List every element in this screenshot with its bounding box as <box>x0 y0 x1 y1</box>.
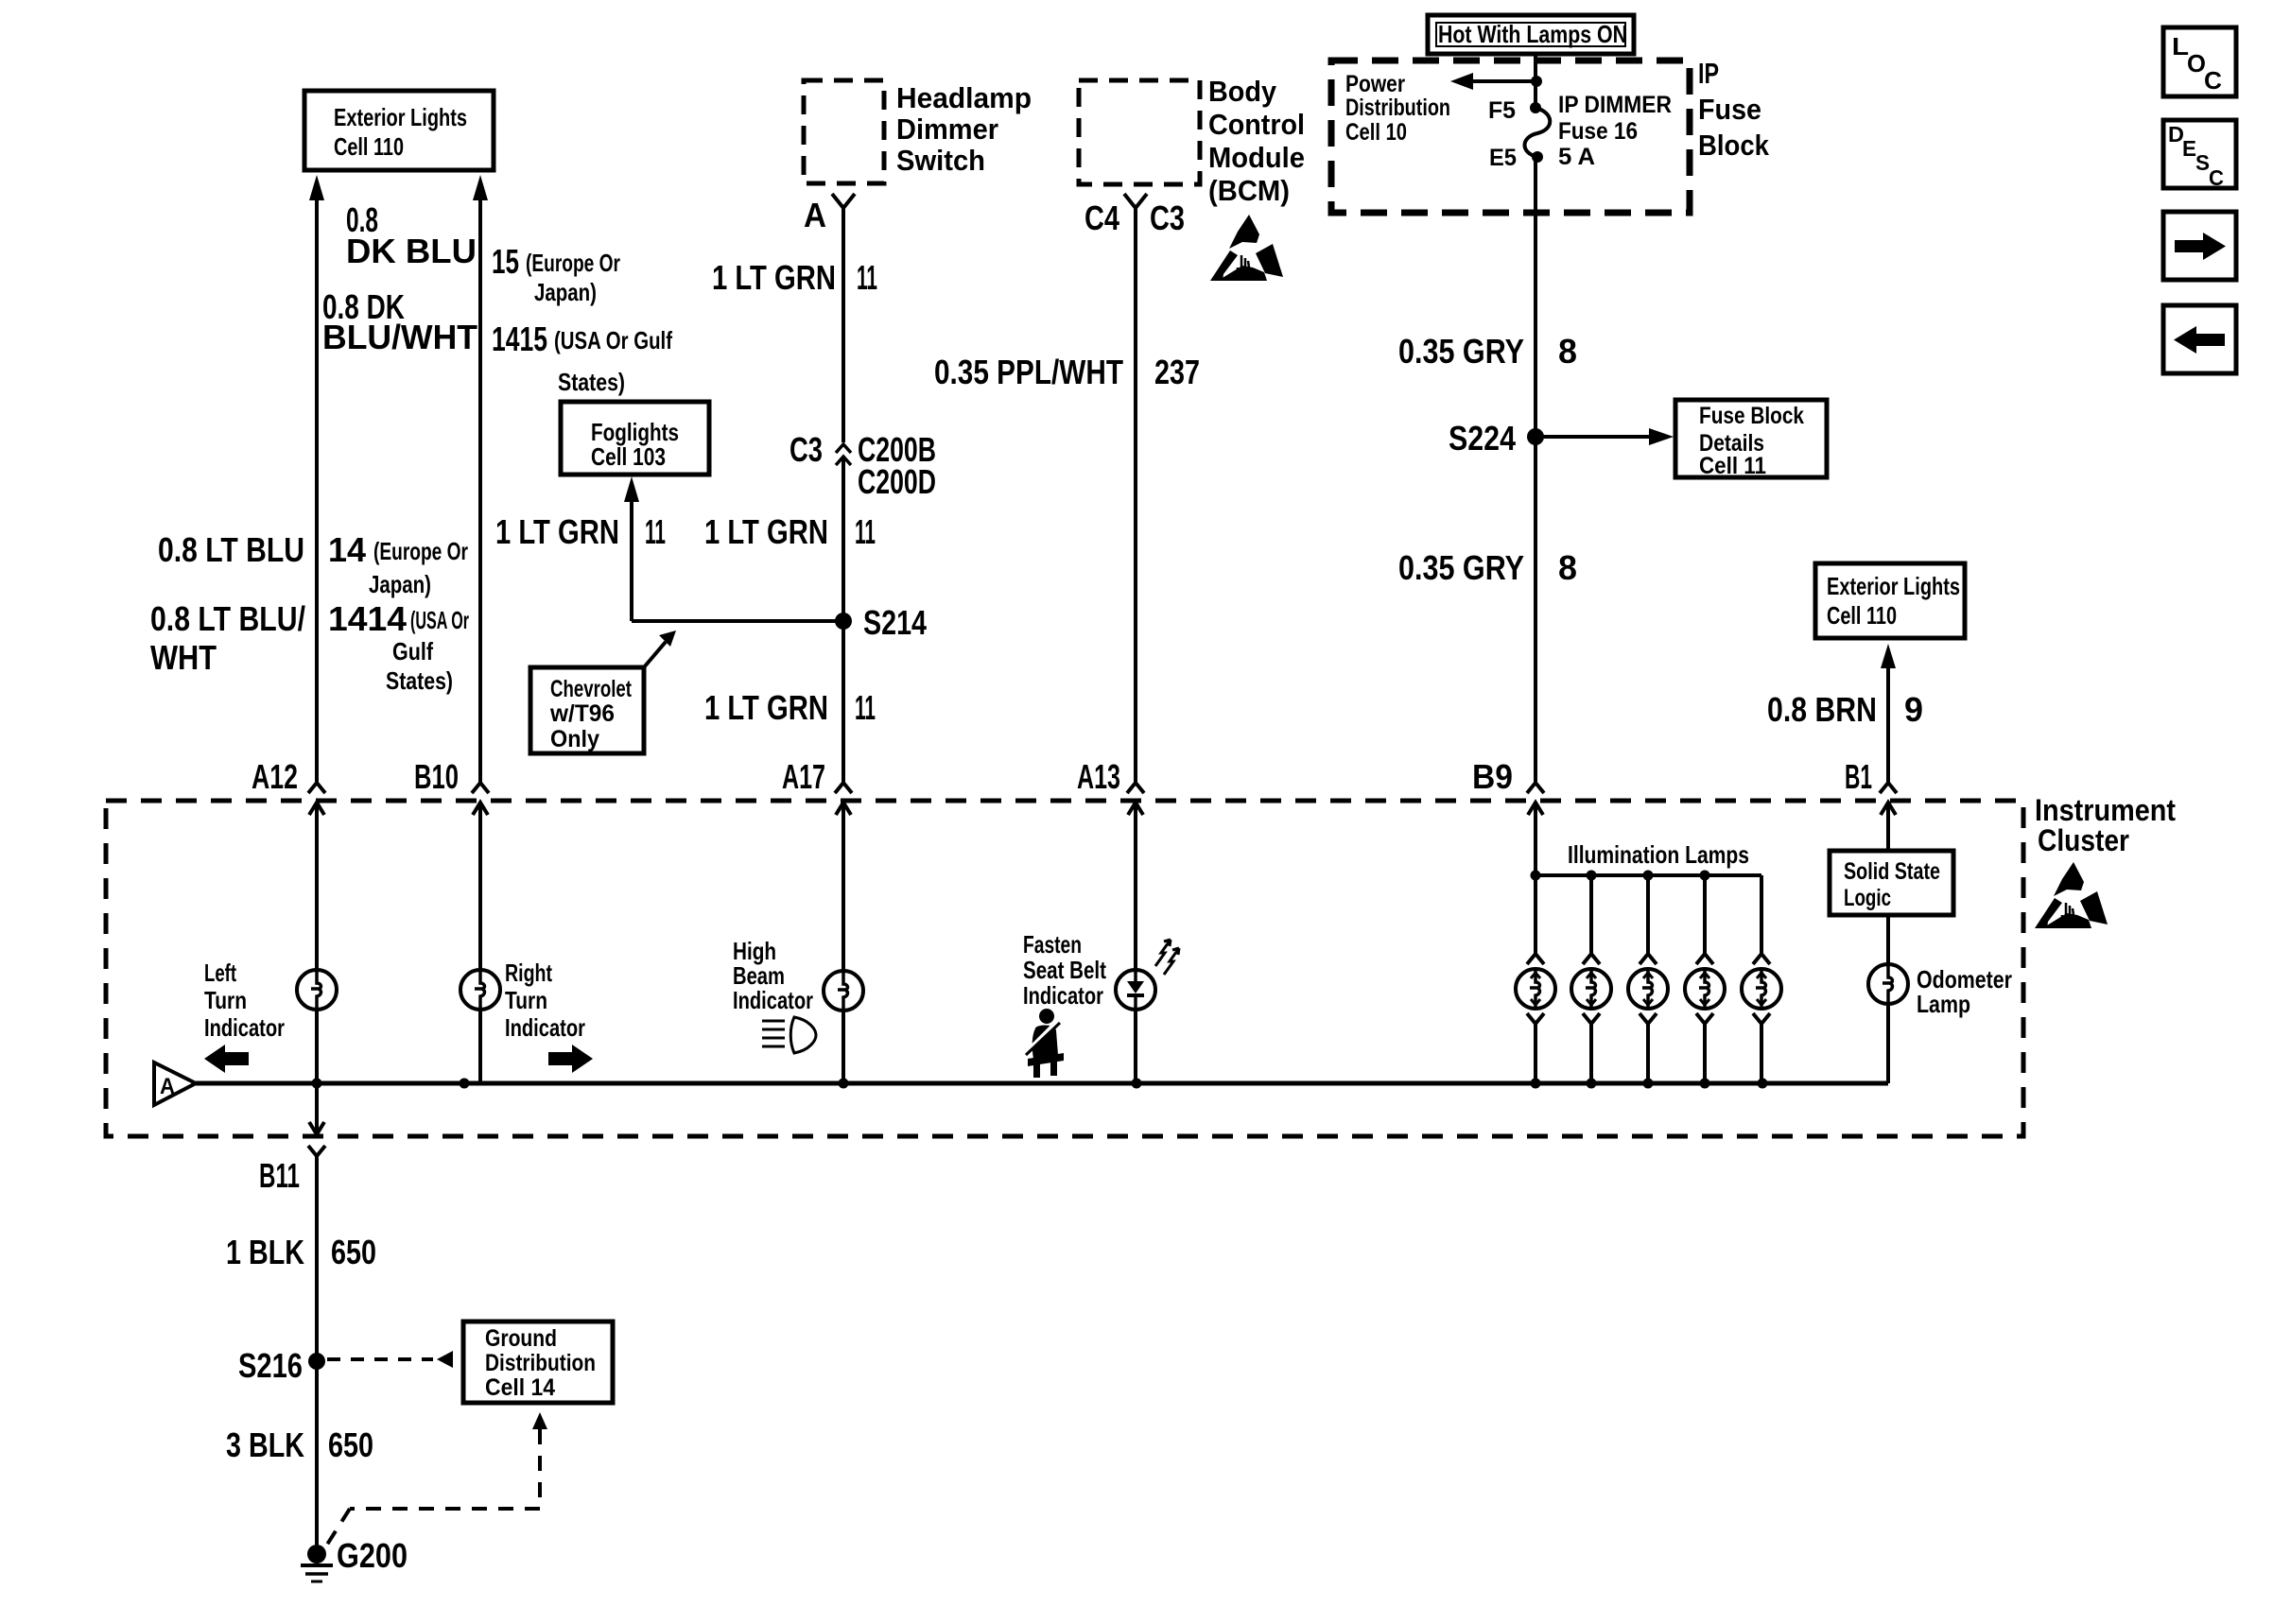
svg-text:Module: Module <box>1208 141 1305 174</box>
wire A13 from BCM - connector fork <box>1124 194 1147 782</box>
svg-text:0.8 LT BLU: 0.8 LT BLU <box>158 530 304 569</box>
box: Exterior Lights Cell 110 (left) <box>304 91 494 170</box>
svg-text:Cell 11: Cell 11 <box>1699 453 1766 479</box>
svg-text:11: 11 <box>855 512 876 551</box>
svg-text:11: 11 <box>855 688 876 727</box>
svg-text:C200D: C200D <box>858 462 936 501</box>
svg-text:B10: B10 <box>414 757 459 796</box>
wire S216 to G200 <box>315 1361 319 1554</box>
svg-text:O: O <box>2187 49 2206 78</box>
arrow to Fuse Block Details <box>1536 428 1674 445</box>
svg-text:C: C <box>2209 165 2224 190</box>
svg-text:1414: 1414 <box>328 599 407 638</box>
svg-text:Body: Body <box>1208 75 1277 108</box>
illumination lamp 4 <box>1685 954 1725 1083</box>
svg-text:(Europe Or: (Europe Or <box>373 537 468 565</box>
label Odometer Lamp <box>1917 965 2012 1018</box>
svg-text:Ground: Ground <box>485 1325 557 1352</box>
svg-text:237: 237 <box>1154 353 1200 391</box>
label Instrument Cluster <box>2035 793 2176 857</box>
icon: high beam symbol <box>762 1017 816 1053</box>
svg-text:Fuse Block: Fuse Block <box>1699 403 1804 429</box>
label Right Turn Indicator <box>505 959 585 1042</box>
box: Headlamp Dimmer Switch (dashed) <box>804 80 884 183</box>
nav box LOC <box>2163 27 2236 96</box>
lamp: Right Turn Indicator <box>460 970 500 1010</box>
svg-text:DK BLU: DK BLU <box>346 232 477 270</box>
svg-text:0.8 BRN: 0.8 BRN <box>1767 690 1877 729</box>
svg-text:A13: A13 <box>1077 757 1120 796</box>
box: Fuse Block Details Cell 11 <box>1675 400 1827 479</box>
label 1 LT GRN 11 (below S214) <box>704 688 876 727</box>
connector A12 at cluster border <box>308 783 325 815</box>
svg-text:States): States) <box>558 368 625 396</box>
label High Beam Indicator <box>733 937 813 1014</box>
svg-text:1 LT GRN: 1 LT GRN <box>704 512 828 551</box>
svg-text:Fuse: Fuse <box>1698 93 1761 126</box>
svg-text:Control: Control <box>1208 108 1305 141</box>
svg-text:B9: B9 <box>1472 757 1513 796</box>
connector B10 at cluster border <box>472 783 489 815</box>
svg-text:1 LT GRN: 1 LT GRN <box>712 258 836 297</box>
svg-text:S216: S216 <box>238 1346 303 1385</box>
wire solid state logic to odometer lamp and bus <box>1886 915 1890 1083</box>
svg-text:11: 11 <box>857 258 877 297</box>
svg-text:Cell 14: Cell 14 <box>485 1374 555 1401</box>
svg-text:S: S <box>2195 150 2210 175</box>
box: Instrument Cluster (dashed) <box>106 801 2023 1136</box>
box: Foglights Cell 103 <box>561 402 709 475</box>
label Left Turn Indicator <box>204 959 285 1042</box>
svg-text:Cell 10: Cell 10 <box>1345 119 1407 146</box>
svg-text:1415: 1415 <box>492 320 547 358</box>
label Body Control Module (BCM) <box>1208 75 1305 207</box>
box: Chevrolet w/T96 Only <box>530 667 644 753</box>
wire inside cluster: high beam branch (A17) <box>842 803 845 1083</box>
ground G200 <box>301 1536 408 1581</box>
svg-text:Indicator: Indicator <box>505 1013 585 1042</box>
svg-text:Indicator: Indicator <box>204 1013 285 1042</box>
svg-text:0.35 PPL/WHT: 0.35 PPL/WHT <box>934 353 1123 391</box>
svg-text:0.35 GRY: 0.35 GRY <box>1398 548 1524 587</box>
svg-text:G200: G200 <box>337 1536 408 1575</box>
svg-text:0.8 LT BLU/: 0.8 LT BLU/ <box>150 599 305 638</box>
illumination lamp 1 <box>1516 954 1555 1083</box>
box: Hot With Lamps ON <box>1428 15 1634 54</box>
svg-text:Hot With Lamps ON: Hot With Lamps ON <box>1438 20 1627 48</box>
svg-text:8: 8 <box>1558 332 1577 371</box>
wire from hot feed into fuse block <box>1534 54 1537 108</box>
svg-text:Left: Left <box>204 959 236 987</box>
illumination branch 3 wire <box>1646 875 1650 954</box>
LED lightning arrows <box>1155 940 1179 975</box>
box: IP Fuse Block (dashed) <box>1331 60 1690 213</box>
svg-text:9: 9 <box>1904 690 1923 729</box>
dashed reference Ground Distribution to G200 <box>319 1412 547 1558</box>
node A triangle (flasher feed) <box>154 1063 196 1105</box>
wire A17 from dimmer switch - connector fork A <box>832 194 855 442</box>
svg-text:Fuse 16: Fuse 16 <box>1558 118 1638 145</box>
svg-text:(USA Or: (USA Or <box>410 606 469 634</box>
illumination branch 2 wire <box>1589 875 1593 954</box>
nav box left arrow <box>2163 305 2236 373</box>
svg-text:Power: Power <box>1345 71 1405 97</box>
label C3 / C200B C200D <box>789 430 936 501</box>
svg-text:Japan): Japan) <box>369 570 431 598</box>
svg-text:11: 11 <box>645 512 666 551</box>
connector labels A12 B10 A17 A13 B9 B1 <box>252 757 1872 796</box>
ESD symbol (BCM) <box>1210 215 1283 281</box>
splice S216 <box>238 1346 325 1385</box>
ESD symbol (cluster) <box>2035 862 2108 928</box>
svg-text:A: A <box>804 196 826 234</box>
box: Solid State Logic <box>1830 851 1953 915</box>
svg-text:Indicator: Indicator <box>1023 981 1103 1010</box>
svg-text:Fasten: Fasten <box>1023 930 1082 959</box>
box: Body Control Module (dashed) <box>1079 80 1200 184</box>
svg-text:1 BLK: 1 BLK <box>226 1233 304 1271</box>
svg-text:A17: A17 <box>782 757 825 796</box>
connector B11 at cluster bottom border <box>308 1122 325 1361</box>
label 1 BLK 650 <box>226 1233 376 1271</box>
svg-text:Switch: Switch <box>896 144 985 177</box>
svg-text:Indicator: Indicator <box>733 986 813 1014</box>
wire inside cluster: left turn branch (A12-B11) <box>315 803 319 1133</box>
box: Ground Distribution Cell 14 <box>463 1322 613 1403</box>
svg-text:Solid State: Solid State <box>1844 858 1940 885</box>
connector C200B/C200D double chevron <box>836 444 851 782</box>
icon: seat belt person <box>1026 1009 1064 1078</box>
svg-text:Dimmer: Dimmer <box>896 112 998 146</box>
svg-text:C3: C3 <box>789 430 823 469</box>
svg-text:IP DIMMER: IP DIMMER <box>1558 92 1672 118</box>
label 0.35 GRY 8 (lower) <box>1398 548 1577 587</box>
svg-text:1 LT GRN: 1 LT GRN <box>495 512 619 551</box>
svg-text:(USA Or Gulf: (USA Or Gulf <box>554 326 672 354</box>
arrow from Chevrolet box to fog branch wire <box>644 631 676 667</box>
LED: Fasten Seat Belt Indicator <box>1116 970 1155 1010</box>
main cluster bus wire <box>196 1081 1888 1086</box>
connector A17 at cluster border <box>835 783 852 815</box>
svg-text:Only: Only <box>550 726 599 752</box>
svg-text:0.35 GRY: 0.35 GRY <box>1398 332 1524 371</box>
svg-text:Gulf: Gulf <box>392 637 433 665</box>
label IP DIMMER Fuse 16 5 A <box>1558 92 1672 170</box>
svg-text:C3: C3 <box>1150 199 1185 237</box>
svg-text:States): States) <box>386 666 453 695</box>
wire inside cluster: right turn branch (B10) <box>478 803 482 1083</box>
junction dot to power distribution <box>1531 76 1542 87</box>
nav box right arrow <box>2163 212 2236 280</box>
pin labels C4 C3 <box>1084 199 1185 237</box>
svg-text:E5: E5 <box>1489 145 1517 171</box>
svg-text:Right: Right <box>505 959 552 987</box>
illumination lamps bus (top) <box>1531 871 1762 955</box>
label 1 LT GRN 11 (dimmer to S214) <box>704 512 876 551</box>
lamp: Left Turn Indicator <box>297 970 337 1010</box>
svg-text:Logic: Logic <box>1844 885 1891 911</box>
svg-text:C4: C4 <box>1084 199 1119 237</box>
svg-text:Cluster: Cluster <box>2038 823 2129 857</box>
label 0.8 DK BLU/WHT circuit 1415 <box>322 287 672 396</box>
lamp: Odometer Lamp <box>1868 964 1908 1004</box>
svg-text:Lamp: Lamp <box>1917 990 1970 1018</box>
fuse IP DIMMER Fuse 16 5A - element <box>1525 108 1551 157</box>
svg-text:IP: IP <box>1698 57 1719 90</box>
wire B9 from fuse to cluster <box>1534 157 1537 782</box>
label Headlamp Dimmer Switch <box>896 81 1032 177</box>
label 0.8 LT BLU circuit 14 <box>158 530 468 598</box>
label 0.8 DK BLU circuit 15 <box>346 200 620 306</box>
illumination lamp 5 <box>1742 954 1781 1083</box>
splice S214 <box>835 603 927 642</box>
svg-text:Turn: Turn <box>204 986 247 1014</box>
svg-text:E: E <box>2182 136 2196 161</box>
svg-text:Cell 110: Cell 110 <box>334 132 404 161</box>
svg-text:BLU/WHT: BLU/WHT <box>322 318 477 356</box>
svg-text:B1: B1 <box>1845 757 1872 796</box>
splice S224 <box>1449 419 1544 458</box>
icon: right turn arrow <box>548 1045 593 1073</box>
nav box DESC <box>2163 120 2236 190</box>
connector B9 at cluster border <box>1527 783 1544 815</box>
svg-text:650: 650 <box>328 1425 373 1464</box>
svg-text:Block: Block <box>1698 129 1770 162</box>
svg-text:(BCM): (BCM) <box>1208 174 1290 207</box>
icon: left turn arrow <box>204 1045 249 1073</box>
svg-text:Seat Belt: Seat Belt <box>1023 956 1106 984</box>
svg-text:5 A: 5 A <box>1558 144 1595 170</box>
label 1 LT GRN 11 (top) <box>712 258 877 297</box>
svg-text:WHT: WHT <box>150 638 217 677</box>
svg-text:C: C <box>2204 66 2222 95</box>
label 0.8 LT BLU/WHT circuit 1414 <box>150 599 469 695</box>
lamp: High Beam Indicator <box>824 971 863 1011</box>
svg-text:Instrument: Instrument <box>2035 793 2176 827</box>
svg-text:S214: S214 <box>863 603 927 642</box>
svg-text:A: A <box>160 1074 175 1099</box>
wire: S214 branch to foglights <box>632 619 843 623</box>
arrow to Foglights box <box>624 476 639 621</box>
svg-text:Cell 110: Cell 110 <box>1827 601 1897 630</box>
connector A13 at cluster border <box>1127 783 1144 815</box>
svg-text:Japan): Japan) <box>534 278 597 306</box>
svg-text:Distribution: Distribution <box>485 1350 596 1376</box>
label 0.35 GRY 8 (upper) <box>1398 332 1577 371</box>
svg-text:(Europe Or: (Europe Or <box>526 249 620 277</box>
svg-text:Illumination Lamps: Illumination Lamps <box>1568 840 1749 869</box>
label 0.8 BRN 9 <box>1767 690 1923 729</box>
svg-text:3 BLK: 3 BLK <box>226 1425 304 1464</box>
svg-text:S224: S224 <box>1449 419 1516 458</box>
fuse F5/E5 terminals <box>1488 97 1543 171</box>
label Power Distribution Cell 10 <box>1345 71 1450 146</box>
svg-text:Cell 103: Cell 103 <box>591 442 666 471</box>
label 1 LT GRN 11 (fog branch) <box>495 512 666 551</box>
illumination branch 4 wire <box>1703 875 1707 954</box>
svg-text:Headlamp: Headlamp <box>896 81 1032 114</box>
connector B1 at cluster border <box>1880 783 1897 815</box>
svg-text:B11: B11 <box>259 1156 300 1195</box>
svg-text:650: 650 <box>331 1233 376 1271</box>
svg-text:w/T96: w/T96 <box>549 700 615 727</box>
wire B1 to Exterior Lights - arrowhead <box>1881 644 1896 782</box>
svg-text:F5: F5 <box>1488 97 1516 124</box>
label Fasten Seat Belt Indicator <box>1023 930 1106 1010</box>
svg-text:A12: A12 <box>252 757 298 796</box>
svg-text:1 LT GRN: 1 LT GRN <box>704 688 828 727</box>
label 0.35 PPL/WHT 237 <box>934 353 1200 391</box>
illumination lamp 3 <box>1628 954 1668 1083</box>
wire B9 branch into bus <box>1534 803 1537 954</box>
svg-text:15: 15 <box>492 242 519 281</box>
wire A12 to Exterior Lights - arrowhead <box>309 175 324 782</box>
wire B1 inside cluster to solid state logic <box>1886 803 1890 851</box>
svg-text:14: 14 <box>328 530 366 569</box>
label IP Fuse Block <box>1698 57 1770 162</box>
dashed reference S216 to Ground Distribution <box>327 1351 453 1368</box>
arrow to Power Distribution <box>1450 73 1536 90</box>
svg-text:Chevrolet: Chevrolet <box>550 676 632 702</box>
wire B10 to Exterior Lights - arrowhead <box>473 175 488 782</box>
svg-text:Turn: Turn <box>505 986 547 1014</box>
svg-text:Exterior Lights: Exterior Lights <box>334 103 467 131</box>
label 3 BLK 650 <box>226 1425 373 1464</box>
illumination lamp 2 <box>1571 954 1611 1083</box>
wire inside cluster: seat belt branch (A13) <box>1134 803 1137 1083</box>
svg-text:8: 8 <box>1558 548 1577 587</box>
svg-text:Exterior Lights: Exterior Lights <box>1827 572 1960 600</box>
bus junction dots <box>312 1079 1768 1089</box>
svg-text:Distribution: Distribution <box>1345 95 1450 121</box>
box: Exterior Lights Cell 110 (right) <box>1815 563 1965 638</box>
